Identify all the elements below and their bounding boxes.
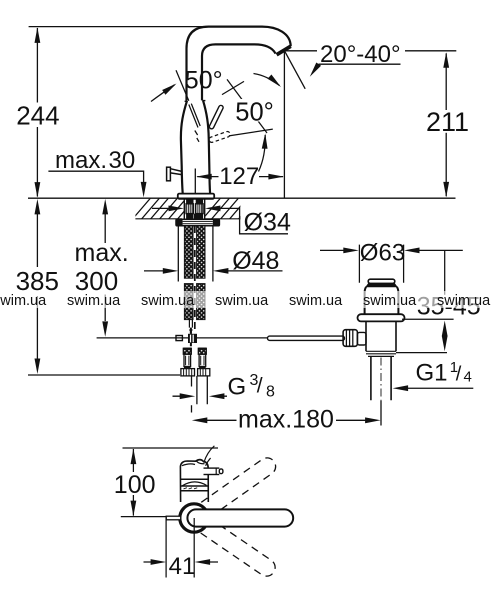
- dashed handle lever (closed position): [209, 132, 230, 143]
- svg-text:swim.ua: swim.ua: [215, 293, 269, 309]
- svg-text:8: 8: [266, 384, 275, 401]
- label 244: [16, 103, 59, 128]
- label diameter63: [361, 243, 403, 263]
- label 100: [113, 473, 156, 495]
- max300 dimension line: [104, 214, 106, 322]
- diameter 34 arrows and leader: [152, 208, 288, 233]
- spout inner curve: [202, 44, 276, 100]
- countertop hatched section right: [200, 194, 260, 222]
- spout top reference line merging into spout outer curve: [29, 27, 291, 47]
- pop-up knob on drain: [343, 330, 357, 347]
- pop-up rod clamp: [176, 336, 182, 341]
- svg-text:/: /: [456, 364, 462, 386]
- threaded shank strips lower segment: [184, 284, 193, 320]
- diameter 48 extension lines: [178, 226, 213, 282]
- pivot cross second line extending to lever line: [227, 79, 267, 133]
- 385 dimension line: [36, 213, 38, 360]
- svg-text:swim.ua: swim.ua: [437, 293, 491, 309]
- bottom view collar bands: [180, 479, 208, 490]
- svg-text:swim.ua: swim.ua: [289, 293, 343, 309]
- pop-up knob bar (plan): [166, 516, 181, 520]
- 41 dimension: [166, 517, 194, 577]
- label 385: [14, 269, 59, 293]
- svg-text:max.180: max.180: [238, 405, 334, 433]
- lower arc arrow toward lever line: [259, 135, 266, 172]
- Ø63 dimension: [320, 249, 463, 251]
- dashed swung spout position lower: [201, 519, 275, 576]
- dashed swung spout position upper: [200, 458, 275, 517]
- countertop underside lines: [135, 218, 240, 220]
- svg-text:G1: G1: [416, 359, 448, 386]
- svg-text:G: G: [228, 374, 247, 401]
- body top shoulder ticks: [185, 100, 206, 103]
- faucet body right edge: [203, 100, 210, 193]
- spout capsule (plan): [187, 509, 293, 526]
- svg-text:Ø34: Ø34: [244, 208, 291, 236]
- drain centerline: [380, 358, 382, 400]
- bottom view faucet body: [180, 460, 208, 502]
- drain dome cap: [368, 279, 395, 283]
- 244 dimension line: [36, 28, 38, 197]
- shank outline in deck: [184, 199, 204, 219]
- svg-text:max.: max.: [55, 147, 107, 174]
- svg-text:20°-40°: 20°-40°: [320, 41, 401, 68]
- 100 dimension: [121, 448, 218, 517]
- max.30 leader: [48, 171, 143, 183]
- svg-text:4: 4: [464, 368, 472, 385]
- 385 lower reference line: [28, 374, 180, 376]
- max180 dimension: [206, 419, 367, 421]
- watermark band: [0, 291, 500, 308]
- arc arrow left of 50deg label: [151, 85, 175, 102]
- bottom view lever handle: [204, 467, 220, 475]
- drain flange: [358, 314, 405, 321]
- svg-text:30: 30: [109, 147, 136, 174]
- countertop surface line: [28, 197, 456, 199]
- 50-degree closed-axis thin line: [176, 70, 189, 101]
- svg-text:Ø48: Ø48: [232, 247, 279, 275]
- hose tube below right connector: [197, 376, 207, 404]
- svg-text:swim.ua: swim.ua: [363, 293, 417, 309]
- spout outlet face: [277, 46, 291, 55]
- svg-text:127: 127: [219, 163, 259, 190]
- label 35-45: [415, 295, 478, 317]
- svg-text:41: 41: [169, 553, 196, 580]
- max300 lower reference line: [97, 337, 268, 339]
- diameter 48 arrows: [144, 270, 283, 272]
- svg-text:Ø63: Ø63: [360, 240, 405, 267]
- pivot cross mark: [222, 81, 244, 94]
- label 50deg lower: [234, 99, 277, 122]
- 20-40 reference lines: [285, 50, 457, 52]
- label max300: [73, 245, 127, 263]
- 20-40 angle line: [285, 51, 306, 89]
- faucet body left edge: [181, 101, 187, 194]
- svg-text:211: 211: [426, 107, 469, 137]
- drain body band: [366, 351, 396, 356]
- svg-text:swim.ua: swim.ua: [67, 293, 121, 309]
- pull-rod hook knob left of body: [167, 167, 183, 181]
- body internal detail lines: [189, 104, 200, 128]
- 211 dimension line: [445, 53, 447, 196]
- svg-text:50°: 50°: [235, 98, 274, 126]
- right hose connector: [198, 348, 210, 376]
- escutcheon ring: [180, 504, 208, 532]
- upper arc arrow toward spout-tip vertical: [254, 74, 280, 86]
- G3/8 arrows: [173, 395, 228, 397]
- left connector centerline: [191, 376, 193, 413]
- svg-text:244: 244: [16, 101, 59, 131]
- G1 1/4 leader: [407, 387, 474, 389]
- drain body: [366, 321, 396, 351]
- 35-45 dimension line: [444, 251, 446, 338]
- pull rod below shank: [189, 320, 192, 328]
- label 211: [424, 111, 471, 133]
- lever extension thin line: [229, 129, 273, 136]
- horizontal rod to drain: [268, 336, 345, 340]
- threaded stud windows: [186, 204, 203, 214]
- mounting washer: [176, 219, 219, 226]
- base plate: [178, 194, 214, 199]
- svg-text:swim.ua: swim.ua: [0, 293, 47, 309]
- threaded shank strips upper segment: [184, 226, 205, 320]
- 127 dimension: [194, 169, 196, 194]
- left hose connector: [181, 348, 195, 376]
- svg-text:swim.ua: swim.ua: [141, 293, 195, 309]
- Ø63 extension lines: [359, 245, 403, 283]
- drain tailpipe: [371, 356, 391, 400]
- drain dome bell: [365, 287, 399, 314]
- svg-text:max.: max.: [75, 239, 129, 267]
- 35-45 reference lines: [396, 319, 454, 352]
- svg-text:/: /: [257, 375, 263, 398]
- countertop hatched section left: [130, 194, 199, 222]
- shank centerline dashes: [194, 226, 196, 330]
- handle motion strokes: [204, 446, 215, 466]
- solid handle lever: [212, 108, 221, 127]
- stud caps above/below windows: [186, 199, 203, 219]
- svg-text:50°: 50°: [185, 67, 223, 95]
- svg-text:100: 100: [114, 471, 156, 499]
